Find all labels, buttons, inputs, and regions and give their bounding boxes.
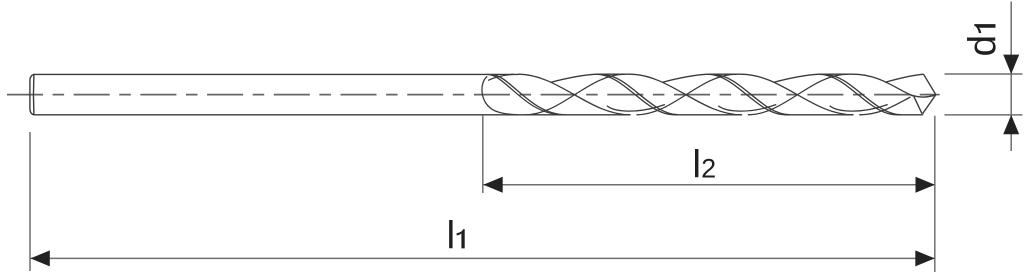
margin pair 1 [488,74,563,114]
arrowheads [30,55,1019,267]
top riser arc k3 [774,74,819,82]
top riser arc k4 (to point corner) [885,74,923,82]
margin pair 2 [596,74,674,115]
right shared extension line [934,116,936,272]
bottom valley arc k1 [607,105,665,112]
d1 top extension line [945,73,1023,75]
flute edge descending B3 [741,74,853,115]
l1 dimension line [30,257,934,259]
bottom flat k1 [674,114,742,116]
bottom valley arc k3 [830,105,888,112]
point upper slant [924,74,936,95]
l1 arrow right [915,250,934,266]
l1 arrow left [30,250,49,266]
margin pair 4 [819,74,897,115]
flute edge ascending C0a (runout, partial) [488,74,514,80]
shank chamfer inner line [32,75,34,115]
flute edge ascending C0 [525,74,625,115]
flute edge ascending C2 [748,74,848,115]
top flat k1 [596,73,630,75]
svg-text:l: l [447,214,456,257]
label d1 [962,24,1005,56]
drill body outline [30,74,923,115]
flute edge descending B4 (clipped by point) [852,74,913,96]
flute helix curves [482,74,924,115]
l2 left extension line [482,115,484,193]
bottom flat k2 [785,114,853,116]
centerline (axis, dash-dot) [7,94,940,96]
chisel edge line [914,96,922,113]
centerline tip dash [926,94,940,96]
svg-text:l2: l2 [692,144,716,187]
shank left end face [30,74,34,114]
svg-text:d: d [962,35,1005,57]
d1 arrow up [1003,115,1019,134]
l1 left extension line [29,132,31,271]
l2 dimension line [483,184,935,186]
flute edge descending B2 [630,74,742,115]
l2 arrow left [483,177,502,193]
margin pair 3 [707,74,785,115]
top riser arc k1 [551,74,596,82]
lip curve [910,95,936,97]
d1 dimension line [1010,2,1012,152]
d1 bottom extension line [945,114,1023,116]
drill point [910,74,936,114]
d1 arrow down [1003,55,1019,74]
flute runout arc B0 (leaf left tip) [482,76,518,114]
top riser arc k2 [663,74,708,82]
flute edge ascending C3 (clipped by point) [859,97,910,115]
flute edge ascending C1 [636,74,736,115]
shank/body top edge [35,73,519,75]
point lower slant [923,95,936,114]
top flat k2 [707,73,741,75]
l2 arrow right [916,177,935,193]
bottom flat k3 [897,114,923,116]
bottom valley arc k2 [718,105,776,112]
top flat k3 [819,73,853,75]
label l1 subscript 1 [457,229,465,248]
shank/body bottom edge [35,114,631,116]
flute edge descending B1 [518,74,630,115]
